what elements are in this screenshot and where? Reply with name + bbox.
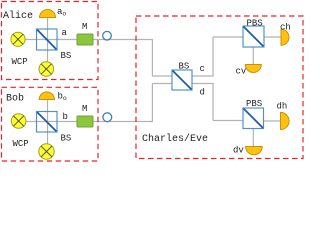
svg-text:WCP: WCP (12, 57, 28, 67)
svg-text:PBS: PBS (247, 19, 263, 29)
svg-text:Charles/Eve: Charles/Eve (142, 133, 208, 145)
svg-text:M: M (82, 104, 87, 114)
svg-text:b: b (63, 112, 68, 122)
svg-text:BS: BS (61, 134, 72, 144)
svg-text:c: c (200, 64, 205, 74)
svg-text:M: M (82, 22, 87, 32)
svg-text:ch: ch (280, 23, 291, 33)
svg-text:BS: BS (179, 62, 190, 72)
svg-text:WCP: WCP (13, 139, 29, 149)
svg-text:dv: dv (233, 146, 244, 156)
svg-text:d: d (200, 88, 205, 98)
svg-text:Alice: Alice (3, 10, 33, 22)
svg-text:Bob: Bob (6, 93, 24, 105)
svg-text:a: a (62, 28, 68, 38)
svg-text:dh: dh (277, 102, 288, 112)
svg-text:PBS: PBS (246, 99, 262, 109)
svg-text:cv: cv (236, 67, 247, 77)
svg-text:BS: BS (61, 51, 72, 61)
